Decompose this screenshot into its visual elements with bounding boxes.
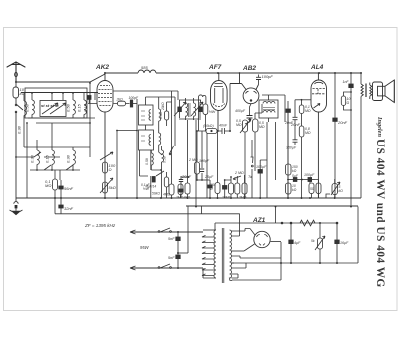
wire top bus y73 [105,72,361,74]
coil osc lower-left 0.58 [151,150,153,170]
box 1 [139,105,154,125]
tuning cap arrows over box [42,103,66,114]
wire oscillator riser x117 [116,131,118,199]
wire left riser x27 [26,123,28,198]
svg-text:32nF: 32nF [64,206,74,211]
resistor 6k on bus [181,177,190,198]
capacitor 0.1µF black [223,180,227,198]
wire x207 riser [206,133,208,198]
svg-text:20nF: 20nF [337,120,348,125]
wire rectified HT rail y223 [215,223,337,230]
svg-text:2MΩ: 2MΩ [238,196,247,200]
capacitor 360µF [293,140,298,145]
wire x275.5 riser psu [276,206,283,224]
svg-text:20nF: 20nF [284,121,294,125]
capacitor 5nF upper [176,232,180,253]
svg-text:100µF: 100µF [256,165,267,169]
switch Ta [251,140,254,198]
svg-text:MΩ: MΩ [45,183,51,188]
resistor 10k [286,183,292,198]
coil L1 0.38 [24,101,26,147]
svg-text:40nF: 40nF [219,124,228,128]
coil osc lower-right 0.58 [151,146,163,170]
output transformer [361,83,372,100]
power transformer primary (tapped autotransformer) [202,230,216,278]
wire x188 riser (mains to chassis) [187,207,189,254]
wire rail y213.8 [202,207,240,214]
svg-text:0.58: 0.58 [145,158,149,165]
capacitor 100µF (AL4 cathode) [302,178,315,184]
capacitor 5µF [288,178,302,182]
wire HT bottom rail y263 [232,207,358,264]
resistor 400ohm [215,130,220,198]
resistor 0.1M left column [53,170,58,198]
wire riser x137 [117,99,137,198]
wire main ground bus y198 [16,197,361,199]
potentiometer 5k tone [326,179,340,198]
svg-text:kΩ: kΩ [292,188,297,192]
svg-text:Ingelen: Ingelen [376,116,383,137]
wire AK2 anode y91 [114,91,179,100]
svg-text:0.58: 0.58 [162,156,166,163]
capacitor 4µF [289,222,293,263]
svg-text:1nF: 1nF [343,80,350,84]
cap black left [178,107,182,112]
core dashes [189,103,190,117]
antenna trimmer KD [13,82,19,104]
capacitor 20nF black right of IFT2 [286,101,290,198]
speaker [373,80,395,103]
wave switch (antenna) [15,104,23,120]
svg-text:2 MΩ: 2 MΩ [234,171,244,175]
capacitor 12nF [55,198,202,214]
svg-text:25µF: 25µF [204,175,214,179]
wire riser x90 [89,83,91,157]
svg-text:kΩ: kΩ [292,169,297,173]
secondary taps [232,229,251,232]
svg-text:0.38: 0.38 [30,154,35,163]
primary voltage taps [202,235,214,275]
wire riser x267 [267,122,276,198]
osc switch [169,97,175,155]
svg-text:MΩ: MΩ [259,125,265,129]
resistor 0.5M fixed [253,104,263,171]
svg-text:0.38: 0.38 [66,154,71,163]
capacitor 100µF [258,160,267,198]
tube AB2 [230,73,259,104]
resistor 100ohm (AK2 cathode) [103,162,108,173]
potentiometer 0.5M (volume) [240,119,251,198]
svg-text:st st st st: st st st st [41,103,59,108]
wire coil-bank grid line y93 [21,92,98,94]
svg-text:400µF: 400µF [235,109,246,113]
svg-text:100µF: 100µF [304,173,315,177]
wire bank bottom rail y147 [24,146,90,148]
capacitor 18nF [179,176,183,185]
svg-text:100pF: 100pF [199,159,210,163]
wire bank mid rail y118 [28,117,95,119]
svg-text:1MΩ: 1MΩ [176,196,184,200]
trimmer arrows AK2 [100,152,113,193]
coil L4 0.15 [84,100,86,118]
svg-text:MΩ: MΩ [305,109,311,113]
capacitor 100pF [197,131,210,180]
svg-text:5k: 5k [311,239,315,243]
svg-text:5kΩ: 5kΩ [109,185,116,190]
svg-text:5nF: 5nF [168,237,175,241]
svg-text:100pF: 100pF [129,96,140,100]
svg-text:MΩ: MΩ [236,123,242,127]
capacitor 0.1µF osc (black) [152,177,155,183]
coil L2 0.58 [32,100,34,118]
svg-text:Ω: Ω [347,101,350,105]
resistor 50 x311 [309,183,314,198]
svg-text:Ω: Ω [210,187,213,191]
ground (antenna circuit) [10,120,23,215]
resistor 50k osc [164,172,168,198]
mains input arrows [130,230,203,270]
svg-text:0.58: 0.58 [66,103,71,112]
wire osc lower runs [140,170,165,198]
AZ1 anode and filament wires [244,229,281,252]
resistor 20k near bus x172 [169,184,174,198]
capacitor 20nF at x181 [179,185,183,198]
svg-text:ZF = 1395 kHz: ZF = 1395 kHz [84,223,116,228]
capacitor 25µF [208,180,212,198]
capacitor 20nF black x335 [333,73,337,198]
svg-text:AL4: AL4 [310,64,324,71]
resistor 20k in osc [165,102,172,126]
svg-text:0.15: 0.15 [45,154,50,163]
capacitor 1nF top right [349,73,353,207]
svg-text:20kΩ: 20kΩ [161,102,165,111]
svg-text:0.38: 0.38 [17,125,22,134]
resistor 2M right with arrow [233,175,247,198]
coil primary [186,98,188,120]
resistor 10M [225,177,234,198]
wire band-switch row y170 [30,165,80,170]
capacitor 16µF [335,222,339,263]
resistor 1M on bus [178,184,183,198]
resistor 5k (AK2) [103,182,108,193]
svg-text:½W: ½W [143,187,150,191]
capacitor 400pF [245,104,253,124]
mains switch upper [158,228,171,232]
tube AL4 [311,73,327,198]
power transformer secondary [230,214,282,281]
svg-text:0.15: 0.15 [77,103,82,112]
switch left section [16,152,60,157]
svg-text:Ta: Ta [248,175,252,179]
svg-text:AF7: AF7 [208,64,222,71]
antenna [7,62,25,82]
capacitor 100pF (osc grid) [130,100,137,107]
wire bank rail y123 [36,122,90,124]
svg-text:56nF: 56nF [64,186,74,191]
coil in box2 [149,135,151,146]
svg-text:5µF: 5µF [292,174,299,178]
svg-text:20nF: 20nF [181,174,192,179]
resistor 0.1M [299,100,304,126]
coil L6 row2 0.15 [52,123,54,170]
oscillator outer coil upper 0.38 [159,97,161,133]
potentiometer 5k hum [315,223,325,263]
wire AK2 grid left (to coil bank) [87,96,164,199]
svg-text:4MΩ: 4MΩ [163,193,171,197]
grid coupling coil AF7 [199,95,206,131]
capacitor 20nF coupling [293,100,298,140]
svg-text:50: 50 [310,187,314,191]
box link stub [140,97,176,176]
tube AK2 [97,73,113,198]
coil 585 on top bus [138,70,156,73]
svg-text:0.15: 0.15 [83,103,88,112]
filter choke resistor zigzag [300,220,315,226]
svg-text:Ω: Ω [109,167,112,172]
wire x288 riser [287,112,289,164]
svg-text:4µF: 4µF [294,241,301,245]
resistor 10ohm [341,92,351,110]
svg-text:100pF: 100pF [262,74,274,79]
coil box (band coils) [40,101,66,117]
coil L3 0.58 [73,100,75,118]
svg-text:½W: ½W [209,110,216,114]
wire riser x60 to bus [59,170,61,180]
resistor 2k (osc grid) [114,101,130,106]
tube AZ1 [254,231,270,247]
svg-text:0.58: 0.58 [25,103,30,112]
trimmer arrows X [174,102,186,116]
mains switch lower [158,264,171,268]
resistor x318.5 [315,180,321,199]
coil L7 row2 0.38 [73,147,75,170]
coil bank enclosure box [25,88,87,118]
cap black right [199,107,203,112]
wire verticals coil bank top row [24,93,95,101]
resistor 0.8M [299,126,304,198]
svg-text:MΩ: MΩ [305,131,311,135]
resistor 50k (AF7 grid) [203,104,208,131]
svg-text:0.38: 0.38 [159,112,163,119]
svg-text:US 404 WV und US 404 WG: US 404 WV und US 404 WG [374,139,386,288]
capacitor 5nF lower [176,253,188,268]
resistor 150k [286,164,292,198]
connecting rails [179,100,201,119]
wire AL4 grid y99.8 [295,99,311,101]
svg-text:95W: 95W [140,245,150,250]
coil L5 row2 0.38 [37,140,39,170]
oscillator outer coil lower [159,133,162,155]
svg-text:585: 585 [141,65,148,70]
svg-text:2kΩ: 2kΩ [116,97,124,101]
transformer core [222,228,224,283]
svg-text:16µF: 16µF [340,241,349,245]
wire output transformer primary riser [360,73,362,198]
svg-text:50kΩ: 50kΩ [152,192,160,196]
svg-text:5nF: 5nF [168,256,175,260]
svg-text:AK2: AK2 [95,64,109,71]
svg-text:AB2: AB2 [242,65,256,72]
coil secondary [194,98,196,120]
resistor (50k) horizontal grid leak [197,129,220,134]
wire IFT1 out risers [172,91,197,207]
svg-text:kΩ: kΩ [339,189,344,193]
tube AF7 [211,73,228,131]
svg-text:(50kΩ): (50kΩ) [203,124,214,128]
svg-text:2 MΩ: 2 MΩ [188,158,198,162]
box 2 [139,130,154,150]
capacitor 56nF [59,180,63,198]
resistor x237 [235,176,240,198]
coil in box1 [149,110,151,121]
resistor 2M vertical [195,131,200,180]
capacitor 40nF [220,128,230,134]
wire antenna feed y82 [16,74,105,82]
wire HT bus y206 [186,205,358,207]
capacitor 100pF at AB2 top [230,75,261,132]
